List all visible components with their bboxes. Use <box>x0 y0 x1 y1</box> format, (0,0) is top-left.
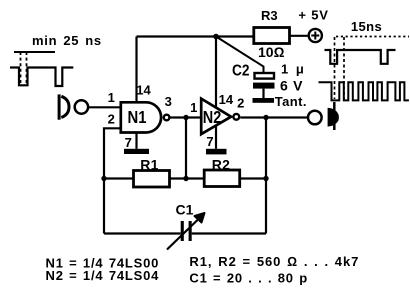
svg-text:7: 7 <box>206 134 213 149</box>
svg-text:R2: R2 <box>212 157 231 173</box>
svg-text:14: 14 <box>219 92 234 107</box>
svg-text:1: 1 <box>108 90 115 105</box>
svg-text:R1: R1 <box>140 157 159 173</box>
svg-text:2: 2 <box>108 111 115 126</box>
svg-text:1: 1 <box>190 100 197 115</box>
svg-text:C1: C1 <box>176 202 194 218</box>
svg-text:Tant.: Tant. <box>275 94 307 109</box>
svg-text:R1, R2 = 560 Ω . . . 4k7: R1, R2 = 560 Ω . . . 4k7 <box>189 254 359 269</box>
svg-text:N1: N1 <box>128 107 147 127</box>
svg-text:3: 3 <box>165 94 172 109</box>
svg-text:C1 = 20 . . . 80 p: C1 = 20 . . . 80 p <box>189 271 308 286</box>
svg-text:N2: N2 <box>203 107 222 127</box>
svg-text:7: 7 <box>125 135 132 150</box>
svg-text:min 25 ns: min 25 ns <box>32 33 102 48</box>
svg-text:2: 2 <box>237 95 244 110</box>
svg-text:R3: R3 <box>261 8 278 23</box>
svg-text:6 V: 6 V <box>280 78 303 94</box>
svg-text:C2: C2 <box>232 63 250 80</box>
svg-text:14: 14 <box>136 83 151 98</box>
svg-text:1 μ: 1 μ <box>281 61 304 76</box>
svg-text:N2 = 1/4 74LS04: N2 = 1/4 74LS04 <box>46 268 160 283</box>
svg-text:15ns: 15ns <box>351 19 382 34</box>
svg-text:+ 5V: + 5V <box>298 7 328 22</box>
svg-text:10Ω: 10Ω <box>258 44 285 60</box>
